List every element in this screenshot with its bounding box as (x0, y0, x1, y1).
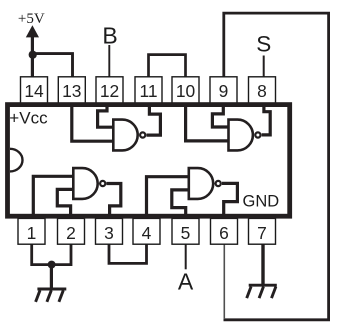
svg-text:11: 11 (139, 81, 157, 101)
svg-text:2: 2 (66, 223, 76, 243)
NAND gate U1b (pins 4,5 in, 6 out) (189, 168, 221, 199)
wire pin 4 to gate U1b upper input (147, 177, 188, 215)
pin 6 (211, 218, 238, 244)
pin 10 (172, 77, 199, 104)
wire pin 11 to pin 10 (149, 55, 186, 78)
pin 8 (249, 77, 276, 104)
pin 4 (133, 218, 160, 244)
wire gate U1d output to pin 11 (147, 104, 161, 135)
NAND gate U1c (pins 9,10 in, 8 out) (229, 120, 261, 151)
svg-text:14: 14 (24, 81, 44, 101)
wire pin 2 to gate U1a lower input (57, 189, 72, 215)
wire +5V branch to pin 13 (32, 54, 72, 78)
svg-text:S: S (256, 31, 271, 56)
power +5V symbol (18, 11, 45, 38)
svg-text:+Vcc: +Vcc (9, 109, 48, 128)
wire pin 6 down to loop (223, 245, 225, 320)
wire pin 3 to pin 4 (109, 244, 147, 263)
pin 11 (135, 77, 162, 104)
wire pin 5 to gate U1b lower input (172, 190, 188, 215)
pin 13 (58, 77, 85, 104)
pin 5 (172, 218, 199, 244)
svg-text:4: 4 (142, 223, 152, 243)
svg-text:5: 5 (181, 223, 191, 243)
svg-text:12: 12 (100, 81, 119, 101)
wire pin 13 to gate U1d lower input (72, 104, 112, 141)
wire pin 9 to gate U1c upper input (212, 104, 227, 127)
svg-text:9: 9 (219, 81, 229, 101)
NAND gate U1d (pins 12,13 in, 11 out) (113, 120, 145, 151)
wire pin 1 to ground junction (32, 244, 71, 265)
ground symbol 2 (247, 285, 277, 298)
svg-text:A: A (178, 269, 194, 295)
junction dot pins 1-2 (48, 261, 56, 269)
wire pin 12 to gate U1d upper input (98, 104, 112, 127)
wire pin 10 to gate U1c lower input (186, 104, 228, 141)
pin 1 (18, 218, 45, 244)
wire +5V to pin 14 (31, 32, 34, 78)
svg-text:+5V: +5V (18, 11, 45, 27)
wire junction to ground 1 (50, 265, 53, 290)
wire gate U1c output to pin 8 (262, 104, 271, 135)
wire feedback loop pin 9 to pin 6 (224, 13, 329, 320)
pin 3 (96, 218, 123, 244)
svg-text:6: 6 (219, 223, 229, 243)
wire pin 5 to node A (185, 244, 187, 269)
wire B to pin 12 (108, 45, 110, 78)
svg-text:10: 10 (176, 81, 195, 101)
svg-text:B: B (102, 23, 117, 49)
svg-text:GND: GND (243, 193, 280, 211)
svg-text:13: 13 (62, 81, 81, 101)
svg-text:3: 3 (104, 223, 114, 243)
pin 7 (249, 218, 276, 244)
junction dot on +5V line (29, 51, 37, 59)
svg-text:7: 7 (257, 223, 267, 243)
pin 12 (96, 77, 123, 104)
svg-text:1: 1 (27, 223, 37, 243)
IC body U1 (7400) (8, 105, 290, 217)
wire gate U1a output to pin 3 (106, 184, 120, 216)
wire S to pin 8 (263, 56, 265, 79)
wire gate U1b output to pin 6 (222, 183, 238, 215)
wire pin 7 to ground 2 (261, 244, 264, 286)
IC notch (10, 149, 23, 172)
NAND gate U1a (pins 1,2 in, 3 out) (73, 168, 105, 199)
svg-text:8: 8 (257, 81, 267, 101)
ground symbol 1 (36, 289, 67, 302)
pin 9 (210, 77, 237, 104)
pin 2 (58, 218, 85, 244)
pin 14 (21, 77, 48, 104)
wire pin 1 to gate U1a upper input (33, 176, 72, 215)
